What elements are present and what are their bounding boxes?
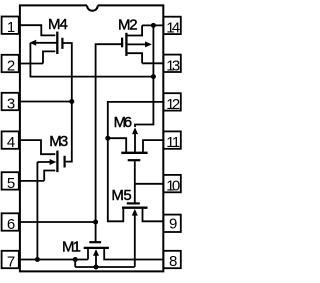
svg-text:10: 10 [166, 178, 180, 195]
wire pin 3 to gate rail B [19, 101, 72, 103]
transistor M3 substrate arrow [50, 159, 57, 165]
wire M4 substrate to VDD rail [30, 43, 153, 77]
svg-text:6: 6 [7, 216, 15, 233]
svg-text:M1: M1 [62, 238, 81, 255]
transistor M2 (PMOS) channel bar [125, 33, 127, 56]
svg-text:3: 3 [7, 96, 15, 113]
wire pin 11 to M6 source [143, 140, 163, 152]
svg-text:M5: M5 [111, 187, 131, 204]
node pin6 junction [93, 220, 98, 225]
transistor M2 substrate arrow [145, 41, 152, 47]
pin 6 box [2, 213, 19, 230]
transistor M5 substrate arrow [132, 209, 138, 216]
svg-text:M4: M4 [48, 16, 68, 33]
transistor M1 source lead [87, 249, 89, 260]
transistor M4 substrate arrow [30, 40, 37, 46]
wire pin 10 to gates C [135, 183, 164, 185]
transistor M6 gate bar [128, 159, 141, 161]
node pin14/VDD-rail junction [151, 23, 156, 28]
svg-text:1: 1 [7, 19, 15, 36]
wire pin 13 to M2 drain [142, 62, 163, 64]
wire M6 drain lead [108, 138, 126, 154]
pin 11 box [163, 131, 180, 148]
transistor M4 gate bar [61, 38, 63, 49]
transistor M3 substrate lead [37, 162, 51, 260]
svg-text:12: 12 [166, 96, 180, 113]
wire NMOS substrate rail [75, 266, 135, 268]
wire gates C (M6 gate to M5 gate) [134, 161, 136, 202]
wire pin 14 VDD [142, 24, 163, 26]
notch (pin-1 index) [87, 5, 98, 10]
wire M4 source lead [43, 51, 55, 63]
transistor M4 (PMOS) channel bar [56, 32, 58, 54]
transistor M6 substrate lead [134, 133, 136, 152]
wire pin 9 to M5 source [143, 209, 164, 222]
svg-text:4: 4 [7, 134, 15, 151]
pin 8 box [163, 251, 180, 268]
node pin3 junction [69, 99, 74, 104]
transistor M5 (NMOS) channel bar [122, 207, 148, 209]
transistor M2 gate bar [121, 38, 123, 48]
transistor M1 (NMOS) channel bar [84, 247, 109, 249]
svg-text:9: 9 [169, 215, 177, 232]
node substrate-rail/M1 junction [94, 265, 99, 270]
wire pin 7 VSS line [19, 259, 88, 261]
transistor M1 substrate arrow [93, 249, 99, 256]
svg-text:5: 5 [7, 175, 15, 192]
transistor M6 (PMOS) channel bar [121, 152, 147, 154]
pin 5 box [2, 172, 19, 189]
wire pin 1 to M4 drain [19, 25, 56, 35]
pin 10 box [163, 175, 180, 192]
pin 2 box [2, 55, 19, 72]
node pin7/M3-substrate junction [35, 257, 40, 262]
node VDD-rail/M4-substrate junction [151, 74, 156, 79]
IC package outline U1 [20, 5, 163, 271]
svg-text:2: 2 [7, 58, 15, 75]
svg-text:M2: M2 [118, 17, 138, 34]
svg-text:13: 13 [166, 57, 180, 74]
wire pin 4 to M3 drain [19, 140, 56, 154]
transistor M1 gate bar [89, 241, 101, 243]
wire M3 source lead [44, 171, 55, 181]
node pin7/substrate-rail jumper junction [73, 257, 78, 262]
pin 3 box [2, 93, 19, 110]
wire VSS jumper to substrate rail [74, 260, 76, 268]
transistor M3 (NMOS) channel bar [56, 151, 58, 173]
svg-text:14: 14 [166, 19, 180, 36]
svg-text:11: 11 [166, 134, 180, 151]
wire pin 8 to M1 drain [104, 249, 163, 260]
wire PMOS substrate rail (VDD) [135, 25, 153, 127]
transistor M1 substrate lead [95, 255, 97, 267]
wire gate rail A (M2 gate to M1 gate) [96, 44, 124, 241]
pin 12 box [163, 93, 180, 110]
svg-text:M6: M6 [114, 114, 133, 131]
pin 7 box [2, 251, 19, 268]
svg-text:M3: M3 [49, 133, 68, 150]
pin 14 box [163, 17, 180, 34]
transistor M4 substrate lead [35, 42, 57, 44]
wire M2 source lead [127, 25, 142, 35]
transistor M5 gate bar [127, 202, 140, 204]
pin 13 box [163, 55, 180, 72]
transistor M6 substrate arrow [132, 127, 138, 134]
wire gate rail B (M4 gate to M3 gate) [63, 43, 71, 162]
node pin12/M6-drain junction [105, 136, 110, 141]
svg-text:7: 7 [7, 254, 15, 271]
wire M2 drain lead [127, 53, 142, 63]
wire pin 6 to gate rail A [19, 221, 96, 223]
svg-text:8: 8 [169, 253, 177, 270]
wire pin 12 to drains C rail [108, 102, 164, 221]
wire pin 5 to M3 source [19, 180, 44, 182]
transistor M5 substrate lead [134, 214, 136, 267]
pin 1 box [2, 17, 19, 34]
pin 9 box [163, 215, 180, 232]
transistor M3 gate bar [63, 156, 65, 168]
transistor M2 substrate lead [127, 43, 146, 45]
wire pin 2 to M4 source [19, 63, 43, 65]
pin 4 box [2, 131, 19, 148]
